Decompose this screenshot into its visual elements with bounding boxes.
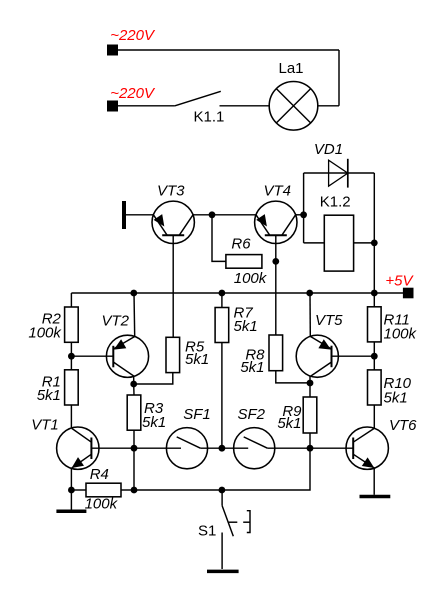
svg-text:~220V: ~220V bbox=[110, 27, 156, 44]
wire junction to R5 bottom bbox=[134, 373, 173, 384]
ground VT1 bbox=[56, 509, 86, 513]
junction VT3-VT4 bbox=[209, 211, 216, 218]
svg-text:5k1: 5k1 bbox=[185, 351, 209, 368]
svg-text:VT4: VT4 bbox=[264, 183, 292, 200]
switch S1 lower contact bbox=[221, 533, 223, 570]
wire relay right bbox=[354, 242, 375, 244]
junction rail VT5 bbox=[306, 290, 313, 297]
wire R10 to VT6 bbox=[373, 405, 375, 428]
wire R3 to SF1 node bbox=[133, 430, 135, 448]
wire VD1 left vertical bbox=[303, 173, 305, 243]
junction R3-SF1 bbox=[131, 445, 138, 452]
wire junction down to R6 bbox=[212, 215, 226, 262]
wire junction to R9 bbox=[309, 383, 311, 397]
wire top right vertical bbox=[338, 50, 340, 106]
junction R4 right bbox=[131, 487, 138, 494]
svg-text:100k: 100k bbox=[384, 326, 418, 343]
resistor R1 bbox=[65, 370, 79, 405]
resistor R7 bbox=[215, 308, 229, 343]
wire bar to VT3 bbox=[126, 214, 153, 216]
wire VT4 collector bbox=[296, 214, 304, 216]
junction relay right bbox=[371, 240, 378, 247]
resistor R6 bbox=[226, 255, 262, 269]
wire rail to R7 bbox=[221, 293, 223, 308]
wire VT2 emitter to rail bbox=[133, 293, 136, 337]
wire rail to R11 bbox=[373, 293, 375, 307]
resistor R11 bbox=[368, 307, 382, 342]
wire R11 to R10 bbox=[373, 342, 375, 370]
junction VT1 emitter R4 bbox=[68, 487, 75, 494]
wire diode horizontal bbox=[304, 172, 375, 174]
resistor R4 bbox=[86, 483, 121, 497]
wire R4 to junction bbox=[121, 489, 134, 491]
wire S1 node to SF2 node bbox=[222, 448, 310, 490]
svg-text:~220V: ~220V bbox=[110, 85, 156, 102]
svg-text:100k: 100k bbox=[28, 325, 62, 342]
reed switch SF2 bbox=[234, 428, 275, 469]
wire top horizontal bbox=[118, 49, 339, 51]
svg-text:La1: La1 bbox=[278, 60, 303, 77]
wire VT6 emitter to ground bbox=[373, 468, 375, 495]
switch S1 upper stub bbox=[221, 490, 223, 506]
junction S1 bbox=[219, 487, 226, 494]
wire square2 to switch K1.1 bbox=[118, 105, 175, 107]
svg-text:VT2: VT2 bbox=[102, 313, 130, 330]
svg-text:R6: R6 bbox=[231, 236, 251, 253]
wire R7 down to SF node bbox=[221, 343, 223, 449]
wire to R4 bbox=[71, 489, 86, 491]
junction rail VT2 bbox=[130, 290, 137, 297]
svg-text:5k1: 5k1 bbox=[234, 318, 258, 335]
transistor VT4 bbox=[255, 201, 297, 243]
svg-text:VT6: VT6 bbox=[389, 417, 417, 434]
svg-text:100k: 100k bbox=[85, 496, 119, 513]
junction VT4 collector bbox=[300, 211, 307, 218]
transistor VT1 bbox=[57, 427, 99, 469]
junction VT2 collector bbox=[130, 381, 137, 388]
svg-text:VT3: VT3 bbox=[157, 183, 185, 200]
wire lamp to vertical bbox=[318, 105, 339, 107]
terminal +5V square bbox=[403, 288, 414, 299]
junction R6 right bbox=[272, 258, 279, 265]
wire rail to R2 bbox=[70, 293, 72, 307]
wire bottom R4 node to S1 node bbox=[134, 489, 222, 491]
wire VT2 collector down bbox=[133, 376, 135, 384]
junction R2-R1-VT2 base bbox=[68, 353, 75, 360]
diode VD1 bbox=[329, 159, 348, 188]
svg-text:5k1: 5k1 bbox=[37, 387, 61, 404]
wire VT1 base to SF node bbox=[91, 447, 134, 449]
transistor VT2 bbox=[106, 335, 148, 377]
transistor VT6 bbox=[346, 427, 388, 469]
resistor R2 bbox=[65, 307, 79, 342]
svg-text:VT1: VT1 bbox=[31, 417, 59, 434]
wire relay left bbox=[304, 242, 325, 244]
ground S1 bbox=[207, 570, 239, 574]
svg-text:K1.1: K1.1 bbox=[194, 109, 225, 126]
transistor VT3 bbox=[152, 201, 194, 243]
switch S1 arm bbox=[222, 506, 233, 537]
wire R1 to VT1 bbox=[70, 405, 72, 428]
wire SF1 to SF2 bbox=[200, 447, 248, 449]
wire VT4 base down to R8 bbox=[275, 235, 277, 335]
svg-text:SF1: SF1 bbox=[183, 406, 211, 423]
resistor R10 bbox=[368, 370, 382, 405]
wire R8 bottom to VT5 collector junction bbox=[276, 371, 310, 383]
svg-text:100k: 100k bbox=[234, 270, 268, 287]
svg-text:VT5: VT5 bbox=[315, 312, 343, 329]
lamp La1 bbox=[269, 82, 318, 131]
terminal bar VT3 emitter bbox=[122, 201, 126, 229]
svg-text:R4: R4 bbox=[90, 466, 109, 483]
terminal ~220V upper square bbox=[107, 45, 118, 56]
wire R2 to R1 bbox=[70, 342, 72, 370]
wire R3 node down to R4 node bbox=[133, 448, 135, 490]
terminal ~220V lower square bbox=[107, 101, 118, 112]
wire VT5 emitter to rail bbox=[309, 293, 311, 336]
resistor R5 bbox=[166, 337, 180, 372]
svg-text:VD1: VD1 bbox=[314, 141, 343, 158]
reed switch SF1 bbox=[134, 428, 208, 469]
svg-text:5k1: 5k1 bbox=[384, 390, 408, 407]
wire VT3 collector to VT4 emitter bbox=[193, 214, 256, 216]
svg-text:5k1: 5k1 bbox=[277, 415, 301, 432]
wire VT1 emitter down bbox=[70, 468, 72, 510]
svg-text:K1.2: K1.2 bbox=[320, 194, 351, 211]
resistor R8 bbox=[269, 335, 283, 371]
ground VT6 bbox=[360, 495, 391, 499]
svg-text:5k1: 5k1 bbox=[240, 359, 264, 376]
svg-text:S1: S1 bbox=[198, 523, 216, 540]
wire SF2 to VT6 base bbox=[267, 447, 353, 449]
junction rail R7 bbox=[219, 290, 226, 297]
junction R11-R10-VT5 base bbox=[371, 353, 378, 360]
svg-text:SF2: SF2 bbox=[238, 406, 266, 423]
wire base VT2 bbox=[71, 355, 113, 357]
wire R9 to SF2 node bbox=[309, 433, 311, 448]
junction rail R11 bbox=[371, 290, 378, 297]
relay coil K1.2 bbox=[324, 215, 353, 271]
wire VT5 base to R10-R11 junction bbox=[332, 355, 375, 357]
relay contact K1.1 arm bbox=[175, 91, 221, 106]
wire +5V rail bbox=[71, 292, 403, 294]
wire VT2 junction to R3 bbox=[133, 384, 135, 395]
transistor VT5 bbox=[296, 335, 338, 377]
resistor R9 bbox=[303, 397, 317, 433]
junction VT5 collector bbox=[307, 380, 314, 387]
svg-text:+5V: +5V bbox=[385, 273, 414, 290]
wire VD1 right vertical to +5V rail bbox=[373, 173, 375, 293]
wire VT5 collector down bbox=[309, 376, 311, 383]
resistor R3 bbox=[127, 395, 141, 430]
switch S1 actuator bracket bbox=[247, 511, 250, 533]
switch S1 actuator link on arm bbox=[229, 521, 238, 523]
wire switch to lamp bbox=[220, 105, 270, 107]
wire VT3 base to R5 bbox=[172, 235, 174, 337]
switch S1 actuator middle tick bbox=[243, 521, 250, 523]
svg-text:5k1: 5k1 bbox=[142, 414, 166, 431]
junction R7-SF bbox=[219, 445, 226, 452]
junction R9-SF2 bbox=[307, 445, 314, 452]
